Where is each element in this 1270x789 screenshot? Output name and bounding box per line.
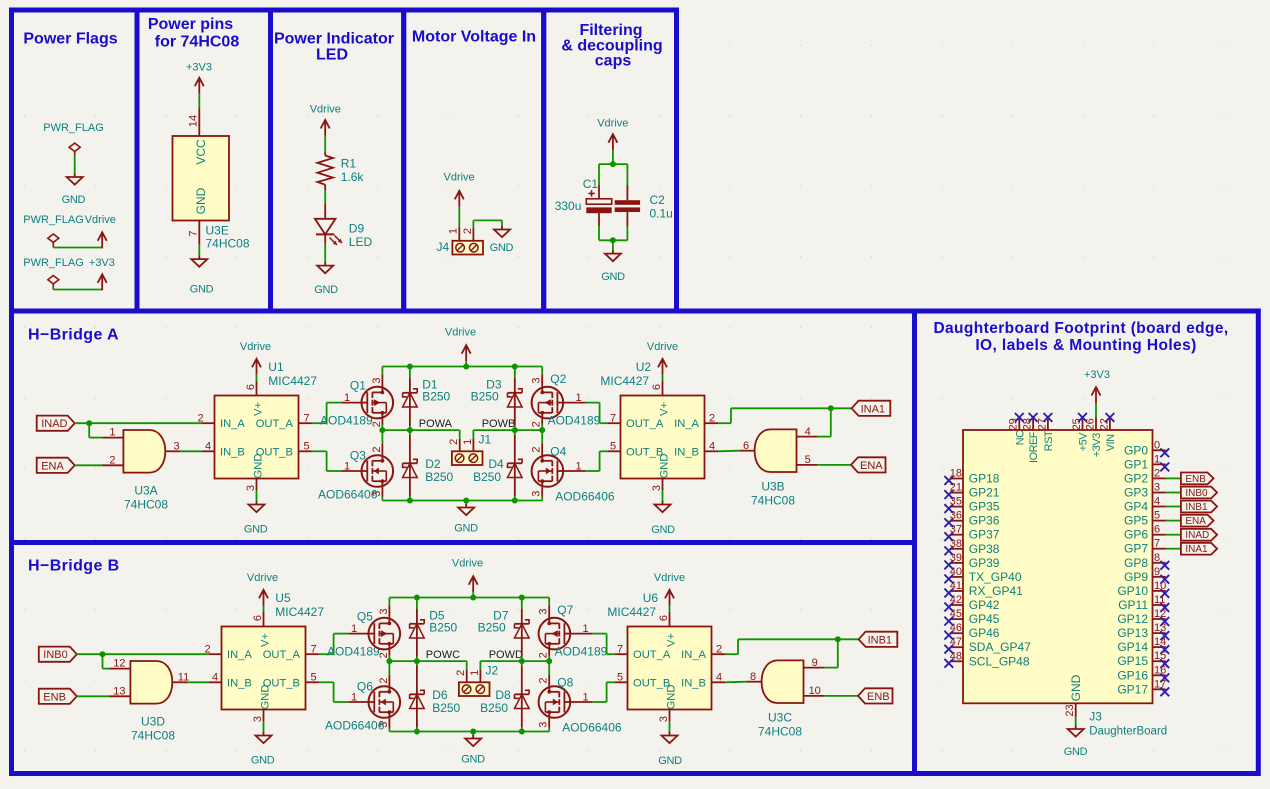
svg-text:7: 7	[617, 644, 623, 656]
svg-text:GP13: GP13	[1117, 626, 1148, 640]
svg-text:+3V3: +3V3	[1084, 369, 1110, 381]
svg-text:TX_GP40: TX_GP40	[969, 570, 1022, 584]
svg-text:AOD66406: AOD66406	[562, 721, 622, 735]
svg-text:11: 11	[178, 672, 189, 684]
svg-text:1: 1	[351, 623, 357, 635]
svg-text:ENB: ENB	[867, 691, 890, 703]
svg-text:74HC08: 74HC08	[758, 725, 802, 739]
svg-text:AOD66406: AOD66406	[325, 719, 385, 733]
svg-text:Vdrive: Vdrive	[597, 118, 628, 130]
svg-text:GND: GND	[194, 187, 208, 214]
svg-text:AOD4189: AOD4189	[548, 413, 601, 427]
svg-text:U3E: U3E	[206, 224, 229, 238]
svg-text:4: 4	[212, 672, 218, 684]
svg-text:INA1: INA1	[1185, 544, 1208, 555]
svg-text:1: 1	[576, 460, 582, 472]
svg-text:U5: U5	[275, 591, 291, 605]
svg-text:330u: 330u	[555, 199, 582, 213]
svg-text:GP5: GP5	[1124, 514, 1148, 528]
svg-text:Power pins: Power pins	[148, 16, 233, 33]
svg-text:2: 2	[538, 652, 550, 658]
svg-text:GND: GND	[601, 271, 625, 283]
svg-text:AOD66406: AOD66406	[555, 490, 615, 504]
svg-text:6: 6	[658, 615, 670, 621]
svg-text:AOD4189: AOD4189	[320, 413, 373, 427]
svg-text:35: 35	[950, 496, 962, 508]
svg-text:5: 5	[1154, 510, 1160, 522]
svg-text:J3: J3	[1089, 710, 1102, 724]
svg-text:D6: D6	[432, 688, 448, 702]
svg-text:GND: GND	[253, 454, 265, 479]
svg-text:caps: caps	[595, 53, 632, 70]
svg-text:74HC08: 74HC08	[131, 729, 175, 743]
svg-text:42: 42	[950, 594, 962, 606]
svg-text:SCL_GP48: SCL_GP48	[969, 654, 1030, 668]
svg-text:GND: GND	[314, 284, 338, 296]
svg-text:J1: J1	[479, 433, 492, 447]
svg-text:J2: J2	[486, 664, 499, 678]
svg-text:1: 1	[1154, 453, 1160, 465]
svg-text:Vdrive: Vdrive	[444, 172, 475, 184]
svg-text:+5V: +5V	[1078, 432, 1090, 452]
svg-text:MIC4427: MIC4427	[268, 374, 317, 388]
svg-text:1: 1	[109, 427, 115, 439]
svg-text:B250: B250	[471, 390, 499, 404]
svg-text:POWC: POWC	[426, 649, 460, 661]
svg-text:GP35: GP35	[969, 500, 1000, 514]
svg-text:10: 10	[809, 685, 821, 697]
svg-text:6: 6	[245, 384, 257, 390]
svg-text:D4: D4	[488, 457, 504, 471]
svg-text:2: 2	[197, 413, 203, 425]
svg-text:PWR_FLAG: PWR_FLAG	[23, 214, 84, 226]
svg-text:GP42: GP42	[969, 598, 1000, 612]
svg-text:GP3: GP3	[1124, 486, 1148, 500]
svg-text:IN_B: IN_B	[674, 446, 699, 458]
svg-text:2: 2	[371, 447, 383, 453]
svg-text:Motor Voltage In: Motor Voltage In	[412, 29, 536, 46]
svg-text:INAD: INAD	[1185, 530, 1209, 541]
svg-text:10: 10	[1154, 580, 1166, 592]
svg-text:Q3: Q3	[350, 448, 366, 462]
svg-text:GND: GND	[1064, 746, 1088, 758]
svg-text:2: 2	[378, 652, 390, 658]
svg-text:AOD4189: AOD4189	[327, 644, 380, 658]
svg-text:5: 5	[617, 672, 623, 684]
svg-text:ENB: ENB	[1185, 474, 1206, 485]
svg-text:1: 1	[462, 439, 474, 445]
svg-text:14: 14	[1154, 636, 1166, 648]
svg-text:V+: V+	[659, 402, 671, 416]
svg-text:3: 3	[538, 722, 550, 728]
svg-text:IOREF: IOREF	[1028, 431, 1040, 463]
svg-text:2: 2	[538, 678, 550, 684]
svg-text:2: 2	[455, 670, 467, 676]
svg-text:B250: B250	[425, 470, 453, 484]
svg-text:B250: B250	[473, 470, 501, 484]
svg-text:VCC: VCC	[194, 139, 208, 165]
svg-text:Q1: Q1	[350, 378, 366, 392]
svg-text:3: 3	[371, 378, 383, 384]
svg-text:GP7: GP7	[1124, 542, 1148, 556]
svg-text:LED: LED	[349, 235, 373, 249]
svg-text:GP38: GP38	[969, 542, 1000, 556]
svg-text:LED: LED	[316, 47, 348, 64]
svg-text:3: 3	[658, 716, 670, 722]
svg-text:U3C: U3C	[768, 711, 792, 725]
svg-text:13: 13	[113, 686, 125, 698]
svg-text:Daughterboard Footprint (board: Daughterboard Footprint (board edge,	[933, 320, 1228, 337]
svg-text:38: 38	[950, 538, 962, 550]
svg-text:GND: GND	[461, 754, 485, 766]
svg-text:Vdrive: Vdrive	[247, 572, 278, 584]
svg-text:GP11: GP11	[1118, 598, 1148, 612]
svg-text:IO, labels & Mounting Holes): IO, labels & Mounting Holes)	[975, 337, 1196, 354]
svg-text:GP6: GP6	[1124, 528, 1148, 542]
svg-text:1: 1	[576, 392, 582, 404]
svg-text:Vdrive: Vdrive	[445, 327, 476, 339]
svg-text:GP14: GP14	[1117, 640, 1148, 654]
svg-text:6: 6	[743, 440, 749, 452]
svg-text:Q2: Q2	[550, 372, 566, 386]
svg-text:U1: U1	[268, 360, 284, 374]
svg-text:GP15: GP15	[1117, 654, 1148, 668]
svg-text:IN_A: IN_A	[681, 649, 706, 661]
svg-text:GP46: GP46	[969, 626, 1000, 640]
svg-text:Q7: Q7	[557, 603, 573, 617]
svg-text:INB0: INB0	[43, 649, 67, 661]
svg-text:2: 2	[531, 447, 543, 453]
svg-text:48: 48	[950, 650, 962, 662]
svg-text:GND: GND	[490, 242, 514, 254]
svg-text:1: 1	[469, 670, 481, 676]
svg-text:GND: GND	[651, 524, 675, 536]
svg-text:RST: RST	[1043, 430, 1055, 451]
svg-text:ENA: ENA	[1185, 516, 1206, 527]
svg-text:PWR_FLAG: PWR_FLAG	[43, 122, 104, 134]
svg-text:GND: GND	[454, 523, 478, 535]
svg-text:Q8: Q8	[557, 676, 573, 690]
svg-text:74HC08: 74HC08	[124, 498, 168, 512]
svg-text:Vdrive: Vdrive	[240, 341, 271, 353]
svg-text:MIC4427: MIC4427	[275, 605, 324, 619]
svg-text:41: 41	[950, 580, 962, 592]
svg-text:GND: GND	[658, 755, 682, 767]
svg-text:MIC4427: MIC4427	[600, 374, 649, 388]
svg-text:Q5: Q5	[357, 609, 373, 623]
svg-text:Filtering: Filtering	[579, 22, 642, 39]
svg-text:14: 14	[188, 115, 200, 127]
svg-text:OUT_A: OUT_A	[263, 649, 301, 661]
svg-text:74HC08: 74HC08	[751, 494, 795, 508]
svg-text:U3A: U3A	[134, 484, 157, 498]
svg-text:39: 39	[950, 552, 962, 564]
svg-text:1: 1	[583, 691, 589, 703]
svg-text:SDA_GP47: SDA_GP47	[969, 640, 1031, 654]
svg-text:+3V3: +3V3	[89, 257, 115, 269]
svg-text:3: 3	[651, 485, 663, 491]
svg-text:46: 46	[950, 622, 962, 634]
svg-text:H−Bridge A: H−Bridge A	[28, 327, 119, 344]
svg-text:6: 6	[651, 384, 663, 390]
svg-text:2: 2	[378, 678, 390, 684]
svg-text:OUT_A: OUT_A	[633, 649, 671, 661]
svg-text:for 74HC08: for 74HC08	[155, 34, 240, 51]
svg-text:IN_B: IN_B	[227, 677, 252, 689]
svg-text:IN_A: IN_A	[220, 418, 245, 430]
svg-text:V+: V+	[260, 633, 272, 647]
svg-text:18: 18	[950, 468, 962, 480]
svg-text:3: 3	[1154, 482, 1160, 494]
svg-text:AOD4189: AOD4189	[555, 644, 608, 658]
svg-text:ENA: ENA	[860, 460, 883, 472]
svg-text:0: 0	[1154, 439, 1160, 451]
svg-text:15: 15	[1154, 650, 1166, 662]
svg-text:6: 6	[1154, 524, 1160, 536]
svg-text:2: 2	[531, 421, 543, 427]
svg-text:4: 4	[1154, 496, 1160, 508]
svg-text:U2: U2	[636, 360, 652, 374]
svg-text:13: 13	[1154, 622, 1166, 634]
svg-text:2: 2	[204, 644, 210, 656]
svg-text:Vdrive: Vdrive	[654, 572, 685, 584]
svg-text:H−Bridge B: H−Bridge B	[28, 558, 120, 575]
svg-text:3: 3	[252, 716, 264, 722]
svg-text:GND: GND	[190, 284, 214, 296]
svg-text:B250: B250	[429, 621, 457, 635]
svg-text:7: 7	[188, 230, 200, 236]
svg-text:47: 47	[950, 636, 962, 648]
svg-text:D8: D8	[495, 688, 511, 702]
svg-text:GP2: GP2	[1124, 471, 1148, 485]
svg-text:GND: GND	[251, 755, 275, 767]
svg-text:3: 3	[538, 609, 550, 615]
svg-text:Vdrive: Vdrive	[310, 104, 341, 116]
svg-text:3: 3	[378, 609, 390, 615]
svg-text:3: 3	[531, 491, 543, 497]
svg-text:B250: B250	[480, 701, 508, 715]
svg-text:Q6: Q6	[357, 679, 373, 693]
svg-text:GND: GND	[244, 524, 268, 536]
svg-text:U6: U6	[643, 591, 659, 605]
svg-text:2: 2	[371, 421, 383, 427]
svg-text:POWD: POWD	[489, 649, 523, 661]
svg-text:26: 26	[1084, 418, 1096, 430]
svg-text:Power Flags: Power Flags	[23, 31, 117, 48]
svg-text:V+: V+	[666, 633, 678, 647]
svg-text:Vdrive: Vdrive	[85, 214, 116, 226]
svg-text:POWA: POWA	[419, 418, 453, 430]
svg-text:GP37: GP37	[969, 528, 1000, 542]
svg-text:7: 7	[1154, 538, 1160, 550]
svg-text:ENB: ENB	[43, 691, 66, 703]
svg-text:Vdrive: Vdrive	[647, 341, 678, 353]
svg-text:GP4: GP4	[1124, 500, 1148, 514]
svg-text:INB1: INB1	[868, 634, 892, 646]
svg-text:GP9: GP9	[1124, 570, 1148, 584]
svg-text:RX_GP41: RX_GP41	[969, 584, 1023, 598]
svg-text:ENA: ENA	[41, 460, 64, 472]
svg-text:2: 2	[109, 455, 115, 467]
svg-text:3: 3	[531, 378, 543, 384]
svg-text:GP0: GP0	[1124, 443, 1148, 457]
svg-text:C2: C2	[650, 193, 666, 207]
svg-text:GP8: GP8	[1124, 556, 1148, 570]
svg-text:GP18: GP18	[969, 472, 1000, 486]
svg-text:Vdrive: Vdrive	[452, 558, 483, 570]
svg-text:4: 4	[805, 426, 811, 438]
svg-text:C1: C1	[583, 177, 599, 191]
svg-text:Power Indicator: Power Indicator	[274, 31, 394, 48]
svg-text:GP21: GP21	[969, 486, 1000, 500]
svg-text:GP36: GP36	[969, 514, 1000, 528]
svg-text:GND: GND	[62, 194, 86, 206]
svg-text:GP12: GP12	[1117, 612, 1148, 626]
svg-text:40: 40	[950, 566, 962, 578]
svg-text:2: 2	[448, 439, 460, 445]
svg-text:D9: D9	[349, 222, 365, 236]
svg-text:D2: D2	[425, 457, 441, 471]
svg-text:+3V3: +3V3	[186, 62, 212, 74]
svg-text:B250: B250	[432, 701, 460, 715]
svg-text:OUT_A: OUT_A	[256, 418, 294, 430]
svg-text:3: 3	[173, 441, 179, 453]
svg-text:INA1: INA1	[861, 403, 885, 415]
svg-text:4: 4	[205, 441, 211, 453]
svg-text:GP17: GP17	[1117, 682, 1148, 696]
svg-text:U3B: U3B	[761, 480, 784, 494]
svg-text:MIC4427: MIC4427	[607, 605, 656, 619]
svg-text:B250: B250	[478, 621, 506, 635]
svg-text:GND: GND	[666, 685, 678, 710]
svg-text:1: 1	[344, 392, 350, 404]
svg-text:1.6k: 1.6k	[341, 170, 365, 184]
svg-text:B250: B250	[422, 390, 450, 404]
svg-text:36: 36	[950, 510, 962, 522]
svg-text:OUT_A: OUT_A	[626, 418, 664, 430]
svg-text:1: 1	[448, 228, 460, 234]
svg-text:45: 45	[950, 608, 962, 620]
svg-text:IN_A: IN_A	[674, 418, 699, 430]
svg-text:17: 17	[1154, 678, 1166, 690]
svg-text:74HC08: 74HC08	[206, 237, 250, 251]
svg-text:12: 12	[113, 658, 125, 670]
svg-text:GP45: GP45	[969, 612, 1000, 626]
svg-text:0.1u: 0.1u	[650, 206, 673, 220]
svg-text:AOD66406: AOD66406	[318, 488, 378, 502]
svg-text:VIN: VIN	[1105, 434, 1117, 451]
svg-text:23: 23	[1064, 704, 1076, 716]
svg-text:5: 5	[805, 454, 811, 466]
svg-text:2: 2	[1154, 467, 1160, 479]
svg-text:GND: GND	[659, 454, 671, 479]
svg-text:7: 7	[610, 413, 616, 425]
svg-text:12: 12	[1154, 608, 1166, 620]
svg-text:8: 8	[1154, 552, 1160, 564]
svg-text:GND: GND	[1069, 674, 1083, 701]
svg-text:INB0: INB0	[1185, 488, 1208, 499]
svg-text:IN_A: IN_A	[227, 649, 252, 661]
svg-text:INB1: INB1	[1185, 502, 1208, 513]
svg-text:Q4: Q4	[550, 445, 566, 459]
svg-text:IN_B: IN_B	[681, 677, 706, 689]
svg-text:GP16: GP16	[1117, 668, 1148, 682]
svg-text:NC: NC	[1014, 430, 1026, 445]
svg-text:3: 3	[245, 485, 257, 491]
svg-text:37: 37	[950, 524, 962, 536]
svg-text:16: 16	[1154, 664, 1166, 676]
svg-text:GND: GND	[260, 685, 272, 710]
svg-text:U3D: U3D	[141, 715, 165, 729]
svg-text:21: 21	[950, 482, 962, 494]
svg-text:11: 11	[1154, 594, 1165, 606]
svg-text:GP10: GP10	[1117, 584, 1148, 598]
svg-text:DaughterBoard: DaughterBoard	[1089, 726, 1167, 738]
svg-text:5: 5	[610, 441, 616, 453]
svg-text:9: 9	[812, 657, 818, 669]
svg-text:GP1: GP1	[1124, 457, 1148, 471]
svg-text:R1: R1	[341, 157, 357, 171]
svg-text:2: 2	[462, 228, 474, 234]
svg-text:V+: V+	[253, 402, 265, 416]
svg-text:9: 9	[1154, 566, 1160, 578]
svg-text:3: 3	[371, 491, 383, 497]
svg-text:POWB: POWB	[482, 418, 516, 430]
svg-text:IN_B: IN_B	[220, 446, 245, 458]
svg-text:PWR_FLAG: PWR_FLAG	[23, 257, 84, 269]
svg-text:3: 3	[378, 722, 390, 728]
svg-text:6: 6	[252, 615, 264, 621]
svg-text:INAD: INAD	[41, 418, 67, 430]
svg-text:J4: J4	[436, 240, 449, 254]
svg-text:+3V3: +3V3	[1091, 433, 1103, 457]
svg-text:1: 1	[583, 623, 589, 635]
svg-text:8: 8	[750, 671, 756, 683]
svg-text:GP39: GP39	[969, 556, 1000, 570]
